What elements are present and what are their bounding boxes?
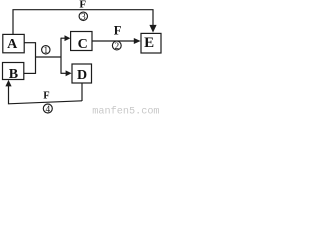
svg-text:F: F bbox=[43, 91, 49, 102]
wire junction vertical bbox=[35, 42, 37, 74]
box A bbox=[3, 34, 24, 52]
wire C to E (path 2) bbox=[92, 40, 135, 42]
circled 1 bbox=[42, 46, 50, 57]
wire bottom return (path 4) bbox=[9, 86, 83, 104]
svg-text:F: F bbox=[114, 24, 122, 38]
svg-text:B: B bbox=[9, 67, 18, 82]
wire A right to junction bbox=[24, 42, 35, 44]
svg-text:3: 3 bbox=[81, 13, 86, 23]
wire A top to E top (path 3) bbox=[13, 10, 153, 35]
box D bbox=[72, 64, 92, 83]
circled 3 bbox=[79, 12, 87, 23]
svg-text:A: A bbox=[7, 37, 18, 52]
wire fork to C bbox=[61, 37, 65, 39]
svg-text:4: 4 bbox=[45, 105, 50, 115]
box B bbox=[3, 63, 24, 80]
wire junction to fork bbox=[36, 56, 62, 58]
wire D bottom down bbox=[81, 83, 83, 101]
box E bbox=[141, 33, 161, 53]
svg-text:manfen5.com: manfen5.com bbox=[92, 106, 159, 116]
svg-text:F: F bbox=[79, 0, 86, 11]
circled 4 bbox=[43, 104, 52, 115]
box C bbox=[71, 32, 92, 51]
arrowhead into E top bbox=[149, 25, 156, 33]
svg-text:D: D bbox=[77, 68, 87, 83]
circled 2 bbox=[112, 41, 121, 52]
svg-text:1: 1 bbox=[43, 46, 48, 56]
arrowhead into D left bbox=[66, 70, 72, 76]
wire fork vertical bbox=[60, 38, 62, 74]
svg-text:C: C bbox=[78, 37, 88, 52]
svg-text:E: E bbox=[144, 35, 154, 51]
wire B right to junction bbox=[24, 72, 36, 74]
wire fork to D bbox=[61, 72, 66, 74]
arrowhead into C left bbox=[65, 35, 71, 41]
svg-text:2: 2 bbox=[114, 42, 119, 52]
arrowhead into E left bbox=[134, 38, 141, 44]
arrowhead into B bottom bbox=[5, 80, 11, 87]
